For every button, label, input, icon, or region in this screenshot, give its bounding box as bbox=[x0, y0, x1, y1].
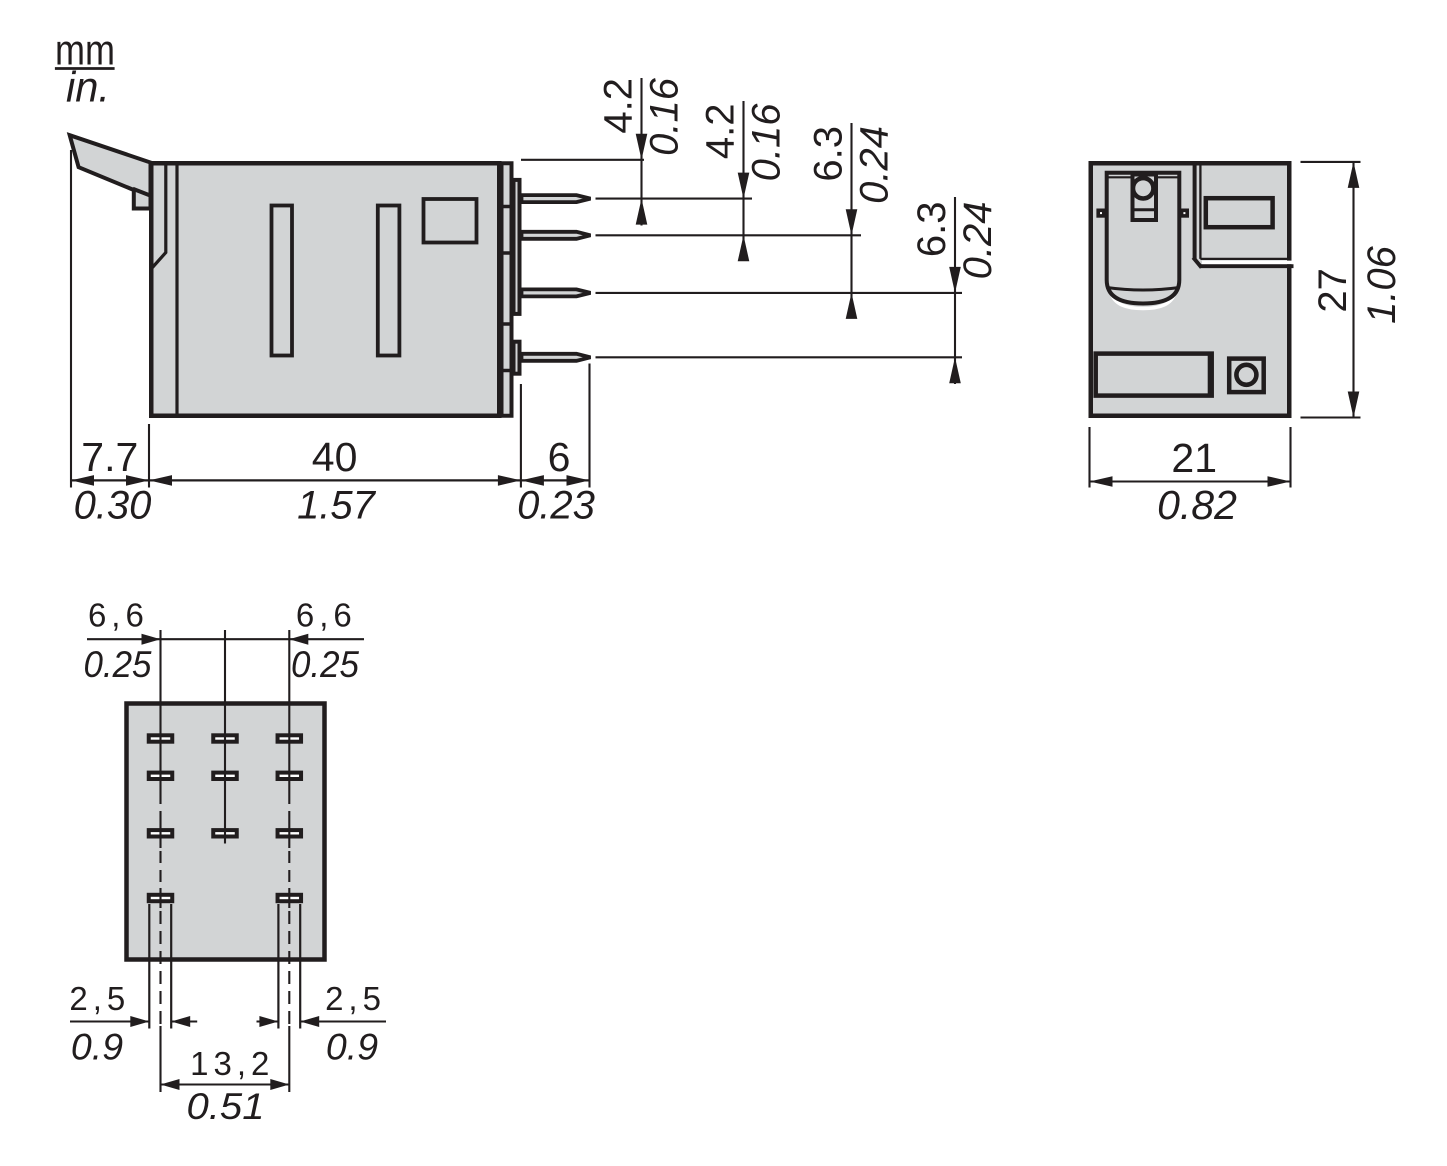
svg-text:0.82: 0.82 bbox=[1157, 482, 1237, 528]
svg-text:21: 21 bbox=[1171, 435, 1217, 481]
svg-text:4.2: 4.2 bbox=[597, 78, 641, 134]
svg-text:0.23: 0.23 bbox=[517, 484, 595, 528]
svg-text:0.16: 0.16 bbox=[643, 77, 687, 156]
svg-text:4.2: 4.2 bbox=[699, 104, 743, 160]
svg-text:6: 6 bbox=[548, 434, 571, 480]
svg-text:7.7: 7.7 bbox=[81, 434, 138, 480]
svg-text:0.24: 0.24 bbox=[956, 202, 1000, 280]
svg-text:in.: in. bbox=[66, 64, 110, 112]
svg-text:0.30: 0.30 bbox=[74, 484, 152, 528]
svg-text:0.9: 0.9 bbox=[71, 1026, 123, 1068]
svg-text:2,5: 2,5 bbox=[69, 980, 130, 1017]
svg-text:40: 40 bbox=[312, 434, 358, 480]
svg-text:2,5: 2,5 bbox=[325, 980, 386, 1017]
svg-text:6,6: 6,6 bbox=[88, 597, 149, 634]
svg-text:6.3: 6.3 bbox=[807, 126, 851, 182]
svg-text:1.57: 1.57 bbox=[297, 484, 377, 528]
svg-text:0.51: 0.51 bbox=[187, 1085, 265, 1127]
svg-text:27: 27 bbox=[1311, 268, 1355, 313]
svg-text:0.24: 0.24 bbox=[853, 126, 897, 204]
svg-text:6.3: 6.3 bbox=[910, 202, 954, 258]
svg-text:0.16: 0.16 bbox=[745, 103, 789, 182]
svg-text:0.25: 0.25 bbox=[84, 643, 152, 685]
svg-text:0.9: 0.9 bbox=[326, 1026, 378, 1068]
svg-text:13,2: 13,2 bbox=[190, 1045, 274, 1082]
svg-text:0.25: 0.25 bbox=[291, 643, 359, 685]
svg-text:1.06: 1.06 bbox=[1360, 245, 1404, 324]
svg-text:6,6: 6,6 bbox=[296, 597, 357, 634]
